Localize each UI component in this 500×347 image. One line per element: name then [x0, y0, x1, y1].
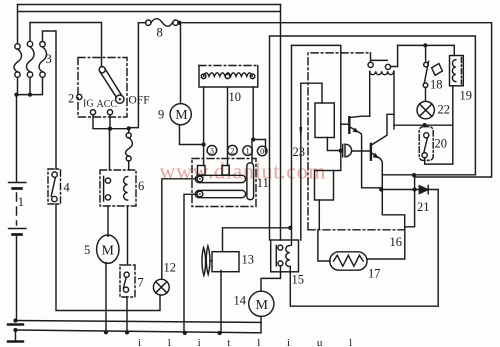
wire bar2 ground [184, 194, 197, 333]
svg-text:0: 0 [260, 146, 264, 156]
wire railB [16, 330, 262, 333]
switch 20 box [419, 127, 433, 161]
resistor R2 [315, 171, 334, 201]
relay K coil [370, 71, 394, 74]
slider bar 2 [195, 190, 245, 197]
wire motor9 top [180, 23, 182, 104]
svg-text:6: 6 [138, 179, 144, 193]
svg-text:M: M [175, 108, 188, 123]
svg-text:M: M [102, 243, 115, 258]
svg-text:10: 10 [229, 90, 242, 104]
wire Q1 collector [349, 116, 369, 117]
svg-text:20: 20 [435, 137, 448, 151]
wire off-side drop [130, 23, 138, 128]
motor 9 [170, 104, 191, 125]
slider bar 1 [195, 175, 245, 182]
relay 6 box [100, 170, 136, 206]
svg-text:16: 16 [390, 235, 403, 249]
relay 19 box [450, 56, 464, 86]
switch 7 box [120, 265, 135, 297]
watermark [138, 159, 364, 347]
selector switch 11 box [192, 159, 256, 207]
wire coil6 to switch7 [127, 206, 129, 265]
transistor Q2 [371, 144, 379, 160]
wire Q supply [292, 45, 341, 150]
wire dot2 branch to sensor [367, 175, 415, 259]
wire tap1 to pad1 [203, 87, 205, 166]
wire R1 bridge [301, 83, 322, 103]
svg-text:23: 23 [293, 145, 306, 159]
motor 5 [97, 235, 119, 263]
arrow 23 head [299, 127, 302, 143]
relay K contacts [368, 60, 391, 69]
junction clutch ground [217, 331, 221, 335]
wire 16 chain [308, 229, 405, 231]
svg-text:18: 18 [430, 78, 443, 92]
wire switch7 ground [126, 297, 128, 332]
wire ig-acc bus [93, 115, 129, 129]
svg-text:8: 8 [157, 26, 163, 40]
transistor Q1 [349, 117, 359, 133]
svg-text:M: M [256, 298, 269, 313]
wire motor14 ground [260, 316, 262, 332]
svg-text:ACC: ACC [97, 99, 118, 110]
svg-text:4: 4 [64, 181, 71, 195]
junction battery railA [13, 318, 17, 322]
junction switch7 ground [125, 330, 129, 334]
svg-text:22: 22 [438, 103, 451, 117]
wire Q2 collector [371, 114, 394, 145]
wire sensor left lead [318, 230, 330, 261]
wire cap out to Q2 base [352, 150, 370, 152]
wire fuse1 drop [17, 5, 19, 44]
clutch 13 [202, 246, 239, 276]
wire tap3 jog [253, 87, 265, 152]
motor 14 [249, 291, 274, 316]
terminal 2 circled [228, 145, 238, 155]
relay 15 box [271, 240, 299, 272]
wire V1 battery to relay15 [280, 5, 282, 241]
terminal 3 circled [207, 145, 217, 155]
wire railA [16, 321, 262, 323]
wire relay6 to motor5 [107, 206, 109, 236]
svg-text:i l i t l i u l: i l i t l i u l [138, 337, 364, 347]
svg-text:2: 2 [230, 145, 234, 155]
svg-text:3: 3 [210, 145, 214, 155]
svg-text:19: 19 [460, 89, 473, 103]
wire motor5 ground [105, 263, 107, 333]
svg-text:1: 1 [245, 146, 249, 156]
wire switch18 stubs [425, 45, 427, 101]
svg-text:1: 1 [18, 195, 24, 209]
wire battery column [16, 95, 18, 182]
ground bar lower [8, 340, 23, 342]
wire rail3a to ignition switch [30, 23, 102, 67]
wire fuse bus [17, 77, 43, 94]
lamp 12 [153, 279, 169, 295]
wire R2 leads [319, 151, 341, 230]
svg-text:5: 5 [84, 243, 90, 257]
svg-text:17: 17 [368, 267, 381, 281]
wire chain to contact1 [308, 53, 371, 230]
wire V2 to relay15 coil [291, 45, 293, 245]
wire common contact riser [251, 140, 253, 163]
ground bar upper [8, 323, 23, 325]
wire relay coil right lead [393, 71, 395, 129]
junction motor5 ground [104, 330, 108, 334]
wire diode line [290, 190, 438, 307]
fuse 8 [146, 19, 179, 27]
wire R1 bottom [327, 138, 340, 151]
wire lamp12 to bar1 [162, 179, 197, 279]
battery 1 plates [9, 182, 26, 184]
resistor block 10 [199, 66, 258, 88]
switch 18 [423, 61, 442, 87]
svg-text:IG: IG [83, 99, 94, 110]
terminal 0 circled [257, 146, 267, 156]
junction bar2 ground [183, 331, 187, 335]
wire rail2 [18, 11, 281, 13]
lamp 22 [417, 101, 434, 118]
resistor R1 [315, 103, 334, 138]
ignition lever [99, 67, 124, 104]
wire contact2 riser [391, 45, 398, 66]
ignition switch 2 box [78, 58, 127, 118]
fuse 6s (small fuse above relay6 coil) [126, 133, 133, 161]
svg-text:3: 3 [46, 52, 52, 66]
svg-text:9: 9 [158, 108, 164, 122]
fuse F3 [39, 42, 47, 78]
wire rail1 top [18, 4, 281, 6]
thermistor 17 [330, 252, 367, 270]
wire clutch feed [223, 228, 291, 252]
wire segment S to box19 [398, 45, 455, 55]
common contact bar [247, 163, 254, 200]
wire switch4 to lamp12 [56, 204, 160, 311]
svg-text:2: 2 [68, 92, 74, 106]
svg-text:11: 11 [257, 176, 269, 190]
svg-text:7: 7 [138, 276, 144, 290]
wire Q1 base [341, 123, 349, 125]
svg-text:14: 14 [234, 294, 247, 308]
amplifier unit box P [270, 36, 476, 240]
fuse F2 [26, 41, 34, 77]
junction battery railB [13, 328, 17, 332]
ignition contacts [77, 94, 82, 99]
switch 4 box [48, 169, 61, 204]
diode 21 [419, 186, 428, 194]
svg-text:OFF: OFF [129, 95, 150, 107]
wire Q2 emitter run [371, 153, 405, 230]
wire clutch13 ground [220, 271, 222, 334]
svg-text:13: 13 [242, 253, 255, 267]
wire 23 output [300, 83, 302, 240]
fuse F1 [14, 44, 22, 78]
wire motor9 bottom [180, 125, 204, 145]
wire rail4 to switch4 [43, 31, 57, 169]
capacitor C [343, 144, 352, 157]
wire rail3b fuse8 run [138, 23, 491, 177]
wire fuse6 links [128, 128, 130, 170]
wire relay15 to motor14 [261, 266, 281, 291]
svg-text:21: 21 [417, 200, 430, 214]
wire L1 bottom edge [382, 174, 475, 176]
wire acc to relay6 [109, 129, 111, 170]
wire relay coil left lead [369, 71, 371, 116]
wire Q1 emitter [349, 127, 380, 188]
wire box19 bottom loop [394, 86, 453, 164]
wire tap2 to pad2 [227, 87, 229, 166]
terminal 1 circled [243, 146, 253, 156]
svg-text:15: 15 [292, 273, 305, 287]
svg-text:12: 12 [164, 261, 177, 275]
pad contacts [198, 166, 206, 176]
